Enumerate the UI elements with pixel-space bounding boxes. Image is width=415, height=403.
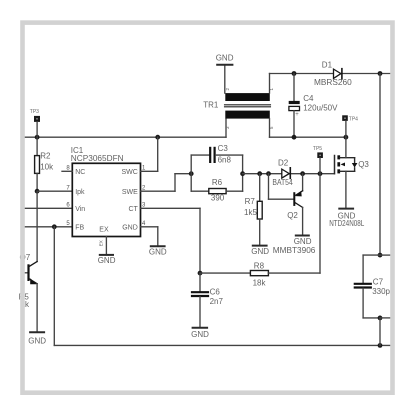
resistor R8 <box>200 262 320 288</box>
wire SWC pin1 riser <box>141 137 158 171</box>
diode D1 MBRS260 <box>314 60 352 87</box>
wire C7 top stub right <box>380 254 390 256</box>
wire pin4 GND to ground <box>141 227 158 246</box>
transformer TR1 <box>203 88 274 130</box>
transistor Q2 MMBT3906 <box>269 174 303 236</box>
ground R7 GND <box>251 246 269 256</box>
wire EX pin to ground <box>105 237 107 255</box>
testpoint TP5 <box>313 146 323 174</box>
wire D1 output down right rail <box>379 74 381 256</box>
node TP4 junction <box>344 135 349 140</box>
wire TR1 secondary bottom rail <box>270 119 346 138</box>
node TP5 junction <box>318 171 323 176</box>
op-amp U1 : IC1 NCP3065DFN box <box>71 146 141 237</box>
wire C3/R6 loop right side <box>242 155 244 191</box>
wire gate net y=173.7 <box>243 173 335 175</box>
wire FB vertical down <box>53 227 55 346</box>
resistor R7 <box>244 174 262 246</box>
wire Q3 source to ground <box>345 171 347 208</box>
node C3 loop left junction <box>189 171 194 176</box>
wire main primary net y=137.2 <box>24 136 226 138</box>
wire Ipk pin7 to R2 <box>37 190 72 192</box>
ground Q3 GND <box>329 209 365 229</box>
capacitor C7 330p <box>355 255 391 318</box>
resistor R2 <box>35 137 54 191</box>
node CT/C6/R8 junction <box>198 271 203 276</box>
testpoint TP3 <box>30 109 40 137</box>
wire C3/R6 loop left side <box>190 155 192 191</box>
node C4 top junction <box>292 71 297 76</box>
capacitor C3 <box>191 144 242 165</box>
wire TR1 primary top to GND <box>224 65 226 93</box>
node C3 loop right junction <box>240 171 245 176</box>
wire C7 bottom to output rail <box>379 318 381 346</box>
node D1 output junction <box>378 71 383 76</box>
pin 8 stub NC <box>62 170 72 172</box>
wire CT pin3 net <box>141 208 201 273</box>
wire TR1 primary bottom-left riser <box>225 119 227 137</box>
wire TR1 secondary top to D1 rail <box>270 74 391 94</box>
diode D2 BAT54 <box>272 159 293 187</box>
transistor Q7 NPN left <box>20 191 38 332</box>
capacitor C4 120u/50V <box>289 74 338 138</box>
ground C6 GND <box>191 328 209 339</box>
wire FB pin5 to left edge <box>24 226 72 228</box>
node FB junction <box>52 224 57 229</box>
ground pin4 GND <box>149 246 167 256</box>
testpoint TP4 <box>342 115 358 137</box>
wire TP5 node down to R8 <box>319 174 321 273</box>
wire SWE pin2 jog <box>141 174 192 192</box>
ground Q2 GND <box>273 236 316 255</box>
ground Q7 GND <box>28 332 46 345</box>
node TP3 junction <box>35 135 40 140</box>
node R7 top junction <box>257 171 262 176</box>
node C7 top junction <box>378 253 383 258</box>
node R2 / Ipk junction <box>35 189 40 194</box>
node Q2 base junction <box>266 171 271 176</box>
ground TR1 GND <box>216 54 234 65</box>
node bottom right junction <box>378 343 383 348</box>
wire Vin pin6 to left edge <box>24 207 72 209</box>
node Q2 emitter junction <box>300 171 305 176</box>
node SWC junction <box>155 135 160 140</box>
resistor R6 <box>191 178 242 203</box>
wire C7 bottom stub right <box>380 317 390 319</box>
wire TP4 node to Q3 drain <box>345 137 347 158</box>
transistor Q3 NTD24N08L mosfet <box>335 155 370 173</box>
wire bottom horizontal net <box>54 344 390 346</box>
capacitor C6 2n7 <box>192 273 223 328</box>
resistor R5 labels clipped <box>19 293 30 310</box>
node C4 bottom junction <box>292 135 297 140</box>
node C7 bottom junction <box>378 316 383 321</box>
ground EX GND <box>98 255 116 265</box>
